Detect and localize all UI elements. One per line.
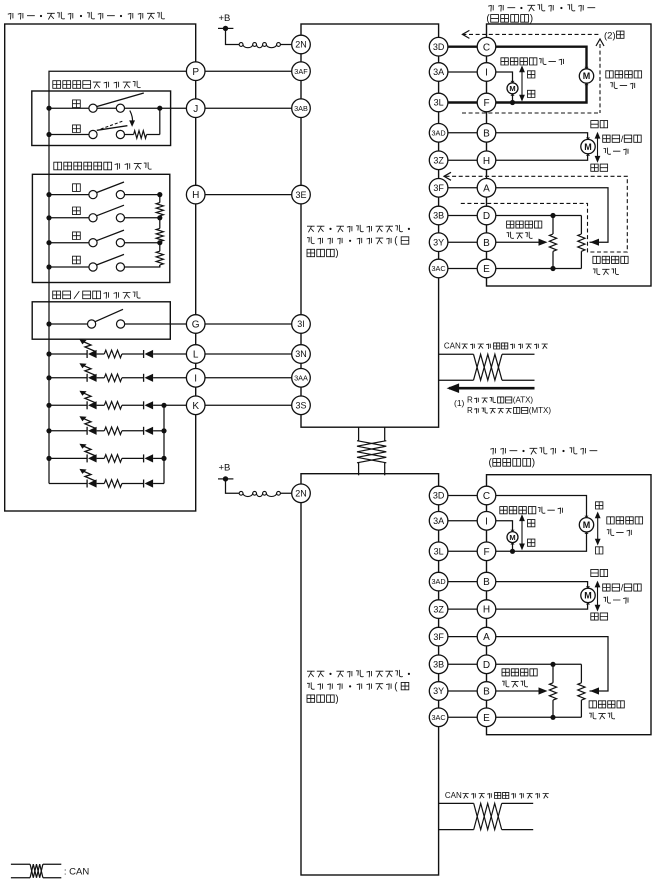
connector 3Z (unit right, driver) [429, 151, 448, 170]
wire 3A-I (passenger) [439, 520, 487, 522]
svg-text:3AC: 3AC [431, 264, 445, 273]
dashed vertical with up arrow [596, 39, 604, 113]
CAN bus lines (lower) [439, 803, 534, 829]
node common 左 (box2) [46, 240, 51, 245]
svg-text:3L: 3L [434, 547, 444, 557]
connector H [186, 185, 205, 204]
resistor chain 3 (box2) [156, 243, 163, 267]
connector B (mirror driver) [477, 233, 496, 252]
unit label (passenger) line1 [307, 670, 410, 677]
node chain top (box2) [157, 192, 162, 197]
wire 3Y-B (driver) [439, 241, 487, 243]
label: CAN system units (lower) [445, 791, 549, 800]
wire 3Z-H (passenger) [439, 608, 487, 610]
wire retract motor to H (passenger) [487, 604, 588, 609]
svg-text:R: R [467, 406, 473, 415]
label: left-right sensor line2 (passenger) [502, 680, 528, 687]
label: +B (lower) [219, 463, 231, 474]
svg-text:I: I [485, 68, 488, 79]
connector D (mirror passenger) [477, 655, 496, 674]
power outer mirror box (passenger) [487, 475, 652, 735]
svg-text:+B: +B [219, 13, 231, 24]
wire L-3N [196, 353, 301, 355]
svg-text:(1): (1) [454, 398, 465, 408]
connector L [186, 345, 205, 364]
label: up-down sensor line1 (driver) [593, 256, 628, 263]
wire 右 row left (box2) [49, 266, 89, 268]
switch contact right (下) [116, 214, 124, 222]
label: motor (driver retract) [604, 148, 629, 155]
connector K [186, 396, 205, 415]
svg-text:G: G [192, 320, 200, 331]
power outer mirror box (driver) [487, 24, 652, 286]
svg-text:3Y: 3Y [433, 686, 444, 696]
wire B to retract motor [487, 133, 588, 138]
switch lever (retract) [95, 309, 123, 322]
wire K-3S [196, 404, 301, 406]
connector F (mirror driver) [477, 93, 496, 112]
wire 下 row right (box2) [125, 217, 160, 219]
connector B (mirror passenger) [477, 572, 496, 591]
svg-text:(2): (2) [604, 30, 616, 41]
connector 3Y (unit right, driver) [429, 233, 448, 252]
svg-text:3D: 3D [433, 42, 445, 52]
svg-text:CAN: CAN [444, 342, 461, 351]
left-right sensor resistor (passenger) [549, 664, 556, 717]
svg-text:H: H [192, 190, 199, 201]
connector 3B (unit right, driver) [429, 206, 448, 225]
wire B row sensor arrow (passenger) [487, 687, 548, 694]
retract/return motor M (passenger) [581, 586, 595, 604]
switch contact left (sel-migi) [89, 130, 97, 138]
connector 3AB (unit left, driver) [292, 99, 311, 118]
fuse coil (lower) [239, 491, 280, 496]
svg-text:3L: 3L [434, 98, 444, 108]
arrow fukki/kakunou (driver) [595, 132, 601, 163]
svg-text:CAN: CAN [445, 791, 462, 800]
svg-text:F: F [483, 547, 489, 558]
left-right motor M (driver) [507, 81, 518, 96]
connector 3AD (unit right, driver) [429, 124, 448, 143]
svg-text:3AB: 3AB [294, 104, 308, 113]
connector 3Y (unit right, passenger) [429, 682, 448, 701]
unit label (driver) line2 [307, 236, 409, 247]
wire fuse to 2N (lower) [280, 492, 301, 494]
label: R range signal ATX [467, 396, 533, 405]
label: hidari (box1) [73, 100, 81, 108]
svg-text:+B: +B [219, 463, 231, 474]
svg-text:B: B [483, 238, 490, 249]
CAN bus lines (upper) [439, 354, 535, 380]
legend CAN lines [11, 864, 61, 878]
up-down sensor resistor (passenger) [578, 664, 585, 717]
connector 3F (unit right, driver) [429, 179, 448, 198]
connector 3S (unit left, driver) [292, 396, 311, 415]
label: up-down adjust motor line1 (driver) [606, 71, 642, 78]
label: fukki (passenger) [591, 569, 608, 576]
resistor chain 1 (box2) [156, 195, 163, 218]
wire retract motor to H [487, 155, 588, 160]
svg-text:3N: 3N [295, 349, 307, 359]
switch contact right (右) [116, 263, 124, 271]
connector 3AC (unit right, driver) [429, 259, 448, 278]
bold wire motor to F [487, 84, 587, 103]
wire E row to sensor (driver) [487, 268, 582, 270]
up-down motor M (driver) [579, 67, 593, 85]
dashed line under F row [462, 112, 600, 114]
node K branch [161, 403, 166, 408]
svg-text:/: / [621, 583, 624, 594]
connector 2N (unit left, passenger) [292, 484, 311, 503]
svg-text:): ) [335, 248, 338, 259]
svg-text:M: M [584, 591, 592, 601]
wire lr-motor to F [512, 94, 514, 103]
svg-text:K: K [192, 401, 199, 412]
label: up-down adjust motor line2 (driver) [610, 82, 635, 89]
svg-text:: CAN: : CAN [64, 867, 89, 878]
up-down sensor resistor (driver) [578, 216, 585, 269]
switch lever (sel-migi) dashed [101, 121, 124, 129]
svg-text:/: / [621, 134, 624, 145]
connector I (mirror driver) [477, 63, 496, 82]
svg-text:): ) [335, 694, 338, 705]
connector 3A (unit right, driver) [429, 63, 448, 82]
label: (1) [454, 398, 465, 408]
CAN braid (lower) [474, 803, 502, 829]
label: 左 (box2) [73, 232, 81, 240]
connector 3Z (unit right, passenger) [429, 600, 448, 619]
svg-text:B: B [483, 128, 490, 139]
svg-text:3Z: 3Z [433, 604, 444, 614]
node sel right [157, 106, 162, 111]
wire I to lr-motor [487, 72, 513, 83]
label: kakunou/fukki motor (driver) [603, 134, 642, 145]
switch lever (左) [97, 230, 125, 241]
label: kakunou (driver) [591, 164, 608, 171]
label: up-down adjust motor line2 (passenger) [607, 529, 632, 536]
svg-text:M: M [583, 520, 591, 530]
wire A to sensor wiper (driver) [487, 188, 609, 246]
connector 3AF (unit left, driver) [292, 62, 311, 81]
svg-text:I: I [485, 516, 488, 527]
connector B (mirror driver) [477, 124, 496, 143]
retract/return motor M (driver) [581, 138, 595, 156]
wire 3Y-B (passenger) [439, 690, 487, 692]
label: kakunou (passenger) [591, 613, 608, 620]
illumination LED row4 [46, 416, 164, 435]
legend CAN braid [30, 864, 43, 878]
wire fuse to 2N (upper) [280, 44, 301, 46]
node D-sensor (driver) [550, 213, 555, 218]
wire 3AD-B (passenger) [439, 581, 487, 583]
label: power outer mirror (driver) line1 [488, 4, 595, 12]
label: kakunou/fukki motor (passenger) [603, 583, 642, 594]
wire A to sensor wiper (passenger) [487, 637, 609, 695]
label: up-down sensor line2 (driver) [593, 268, 619, 275]
R range signal arrow [447, 383, 535, 393]
svg-text:C: C [483, 42, 490, 53]
switch contact right (retract) [117, 320, 125, 328]
wire 上 row right (box2) [125, 194, 160, 196]
svg-text:3AC: 3AC [431, 713, 445, 722]
wire I-3AA [196, 377, 301, 379]
wire G row right [125, 323, 196, 325]
adjust switch box [32, 174, 169, 282]
svg-text:3A: 3A [433, 67, 444, 77]
svg-text:P: P [192, 67, 199, 78]
wire G-3I [196, 323, 301, 325]
unit label (driver) line3 [307, 248, 339, 259]
label: up-down-left-right adjust switch [54, 162, 152, 170]
label: selector switch [53, 81, 141, 89]
node E-sensor (driver) [550, 266, 555, 271]
connector G [186, 315, 205, 334]
connector H (mirror passenger) [477, 600, 496, 619]
svg-text:M: M [583, 71, 591, 81]
label: 上 (box2) [73, 184, 81, 192]
connector 3N (unit left, driver) [292, 345, 311, 364]
switch contact left (retract) [88, 320, 96, 328]
arrow fukki/kakunou (passenger) [595, 581, 601, 612]
fuse coil (upper) [239, 43, 280, 48]
svg-text:3F: 3F [433, 183, 444, 193]
dashed sensor linkage (driver) [444, 172, 627, 252]
switch contact right (上) [116, 191, 124, 199]
label: power outer mirror (passenger) line2 [489, 458, 536, 469]
wire C to up-down motor (passenger) [487, 496, 587, 518]
wire J-3AB [196, 107, 301, 109]
svg-text:2N: 2N [295, 489, 307, 499]
dashed arrow (2)down horizontal [462, 30, 598, 38]
svg-text:M: M [509, 533, 515, 542]
connector 3AC (unit right, passenger) [429, 708, 448, 727]
wire common vertical from P [49, 71, 196, 483]
label: ue (passenger) [596, 547, 603, 554]
wire 3L-F (driver) [439, 101, 487, 103]
wire 3B-D (passenger) [439, 663, 487, 665]
svg-text:(ATX): (ATX) [513, 396, 534, 405]
svg-text:D: D [483, 660, 490, 671]
label: migi (passenger mirror) [528, 520, 535, 527]
wire 上 row left (box2) [49, 194, 89, 196]
connector E (mirror passenger) [477, 708, 496, 727]
wire LED branch vertical [163, 405, 165, 483]
wire B row sensor arrow (driver) [487, 239, 548, 246]
connector I (mirror passenger) [477, 512, 496, 531]
switch contact right (sel-hidari) [116, 104, 124, 112]
resistor (selector) [125, 131, 160, 139]
node common 右 (box2) [46, 264, 51, 269]
arrow migi/hidari (passenger) [519, 514, 525, 550]
wire I to lr-motor (passenger) [487, 521, 513, 532]
node row5 branch [161, 456, 166, 461]
connector A (mirror driver) [477, 179, 496, 198]
label: power outer mirror (passenger) line1 [490, 447, 597, 455]
wire B to retract motor (passenger) [487, 582, 588, 587]
wire J row [49, 107, 196, 109]
switch contact left (sel-hidari) [89, 104, 97, 112]
connector 3B (unit right, passenger) [429, 655, 448, 674]
svg-text:3AA: 3AA [294, 373, 308, 382]
connector A (mirror passenger) [477, 627, 496, 646]
illumination LED row6 [49, 469, 164, 488]
svg-text:): ) [530, 14, 533, 25]
switch contact left (左) [89, 239, 97, 247]
label: retract/return switch [53, 291, 141, 299]
wire E row to sensor (passenger) [487, 716, 582, 718]
label: fukki (driver) [591, 121, 608, 128]
label: hidari (driver mirror) [528, 90, 535, 97]
unit label (driver) line1 [307, 225, 410, 232]
wire +B to fuse (lower) [226, 479, 240, 493]
connector 3D (unit right, passenger) [429, 486, 448, 505]
connector E (mirror driver) [477, 259, 496, 278]
switch contact right (sel-migi) [116, 130, 124, 138]
svg-text:C: C [483, 491, 490, 502]
wire D row to sensor (driver) [487, 215, 582, 217]
wire H-3E [196, 194, 301, 196]
svg-text:A: A [483, 632, 490, 643]
label: power outer mirror (driver) line2 [486, 14, 533, 25]
wire 3F-A (driver) [439, 187, 487, 189]
wire 右 row right corner (box2) [125, 265, 160, 267]
illumination LED K [46, 391, 195, 410]
wire D row to sensor (passenger) [487, 663, 582, 665]
left-right motor M (passenger) [507, 530, 518, 545]
svg-text:M: M [584, 142, 592, 152]
switch contact left (下) [89, 214, 97, 222]
label: up-down sensor line1 (passenger) [589, 701, 624, 708]
svg-text:B: B [483, 687, 490, 698]
CAN braid (upper) [474, 354, 503, 380]
wire G row left [49, 323, 88, 325]
svg-text:E: E [483, 264, 490, 275]
arrow migi/hidari (driver) [519, 66, 525, 102]
label: 下 (box2) [73, 207, 81, 215]
wire 左 row right (box2) [125, 242, 160, 244]
switch contact left (上) [89, 191, 97, 199]
svg-text:(MTX): (MTX) [529, 406, 552, 415]
svg-text:I: I [194, 373, 197, 384]
connector 2N (unit left, driver) [292, 35, 311, 54]
node common 下 (box2) [46, 215, 51, 220]
label: left-right adjust motor (driver) [501, 58, 564, 65]
label: motor (passenger retract) [604, 596, 629, 603]
wire P-3AF [196, 70, 301, 72]
connector D (mirror driver) [477, 206, 496, 225]
connector 3A (unit right, passenger) [429, 512, 448, 531]
wire 3Z-H (driver) [439, 159, 487, 161]
label: shita (passenger) [596, 502, 603, 509]
node lr-motor on F [510, 100, 515, 105]
wire 3A-I (driver) [439, 71, 487, 73]
legend label : CAN [64, 867, 89, 878]
connector 3AA (unit left, driver) [292, 369, 311, 388]
connector 3F (unit right, passenger) [429, 627, 448, 646]
label: 右 (box2) [73, 256, 81, 264]
node common 上 (box2) [46, 192, 51, 197]
svg-text:3AF: 3AF [294, 67, 308, 76]
node E-sensor (passenger) [550, 715, 555, 720]
switch contact right (左) [116, 239, 124, 247]
label: up-down sensor line2 (passenger) [589, 712, 615, 719]
left-right sensor resistor (driver) [549, 216, 556, 269]
svg-text:M: M [509, 84, 515, 93]
svg-text:3I: 3I [297, 319, 305, 329]
label: +B (upper) [219, 13, 231, 24]
up-down motor M (passenger) [579, 516, 593, 534]
illumination LED I [46, 363, 195, 382]
connector 3L (unit right, passenger) [429, 542, 448, 561]
twisted pair wires (inter-unit) [359, 427, 385, 475]
node D-sensor (passenger) [550, 662, 555, 667]
selector switch box [32, 91, 171, 146]
wire 左 row left (box2) [49, 242, 89, 244]
svg-text:3Y: 3Y [433, 237, 444, 247]
wire motor to F (passenger) [487, 532, 587, 551]
connector 3AD (unit right, passenger) [429, 572, 448, 591]
label: switch panel title [8, 12, 165, 20]
door electrical supply unit box (driver) [301, 24, 439, 427]
bold wire C to up-down motor [487, 47, 587, 69]
door electrical supply unit box (passenger) [301, 474, 439, 875]
+B terminal (upper) [218, 26, 233, 31]
connector F (mirror passenger) [477, 542, 496, 561]
wire 3B-D (driver) [439, 215, 487, 217]
connector C (mirror passenger) [477, 486, 496, 505]
svg-text:2N: 2N [295, 40, 307, 50]
wire migi row (box1) [46, 132, 89, 137]
svg-text:): ) [532, 458, 535, 469]
illumination LED row5 [46, 444, 164, 463]
unit label (passenger) line2 [307, 681, 409, 692]
svg-text:F: F [483, 98, 489, 109]
wire selector resistor up [159, 108, 161, 134]
switch lever (sel-migi) closed [97, 126, 128, 131]
label: left-right sensor line2 (driver) [507, 232, 533, 239]
connector 3L (unit right, driver) [429, 93, 448, 112]
svg-text:D: D [483, 211, 490, 222]
switch lever (上) [97, 182, 125, 193]
wire 3AC-E (passenger) [439, 716, 487, 718]
arrow ue/shita (passenger) [595, 512, 601, 546]
svg-text:A: A [483, 183, 490, 194]
svg-text:L: L [193, 350, 199, 361]
wire 3L-F (passenger) [439, 550, 487, 552]
twisted pair braid (inter-unit) [357, 441, 386, 463]
label: up-down adjust motor line1 (passenger) [607, 517, 643, 524]
svg-text:3E: 3E [295, 190, 306, 200]
svg-text:3F: 3F [433, 632, 444, 642]
connector 3E (unit left, driver) [292, 185, 311, 204]
connector I [186, 369, 205, 388]
unit label (passenger) line3 [307, 694, 339, 705]
svg-text:H: H [483, 156, 490, 167]
connector C (mirror driver) [477, 37, 496, 56]
connector J [186, 99, 205, 118]
connector B (mirror passenger) [477, 682, 496, 701]
resistor chain 2 (box2) [156, 218, 163, 243]
label: migi (driver mirror) [528, 71, 535, 78]
connector P [186, 62, 205, 81]
label: CAN system units (upper) [444, 342, 548, 351]
label: left-right sensor line1 (passenger) [502, 669, 537, 676]
switch contact left (右) [89, 263, 97, 271]
svg-text:3B: 3B [433, 211, 444, 221]
wire 3F-A (passenger) [439, 636, 487, 638]
wire 下 row left (box2) [49, 217, 89, 219]
retract switch box [32, 302, 170, 339]
